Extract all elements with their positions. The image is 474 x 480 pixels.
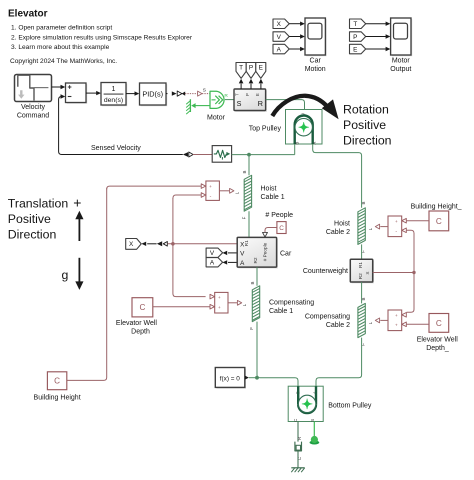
svg-text:Command: Command (17, 112, 49, 119)
svg-text:Top Pulley: Top Pulley (249, 126, 282, 133)
wire hoist cable 1 to Car R1 (248, 211, 250, 237)
wire well depth C to add block (153, 306, 210, 308)
svg-text:Elevator: Elevator (8, 8, 48, 19)
svg-text:Positive: Positive (8, 212, 51, 226)
scope Motor Output (392, 19, 412, 56)
svg-text:Copyright 2024 The MathWorks,: Copyright 2024 The MathWorks, Inc. (10, 58, 117, 65)
svg-text:Cable 1: Cable 1 (261, 194, 285, 201)
from tag E (350, 44, 366, 54)
svg-text:B: B (250, 281, 255, 284)
svg-text:# People: # People (263, 242, 268, 261)
svg-text:Bottom Pulley: Bottom Pulley (328, 403, 372, 410)
wire bottom pulley S to reference dot (313, 422, 315, 439)
svg-text:E: E (255, 93, 260, 96)
compensating cable 2 (358, 303, 365, 337)
wire Elevator Well Depth_ to add right (407, 323, 429, 325)
wire solver to network (249, 377, 257, 379)
wire counterweight X output (373, 272, 414, 274)
svg-text:R: R (297, 437, 302, 440)
svg-text:Output: Output (390, 66, 411, 73)
electrical reference ground at motor (195, 105, 210, 107)
svg-text:X: X (129, 241, 134, 248)
svg-text:Counterweight: Counterweight (303, 268, 348, 275)
wire X junction down to add block right (407, 273, 414, 313)
block PID(s) (141, 84, 168, 106)
wire Velocity Command to Sum (52, 86, 62, 88)
svg-text:Car: Car (310, 58, 322, 65)
svg-text:Rotation: Rotation (343, 103, 389, 117)
wire Sum to Transfer Fcn (86, 92, 97, 94)
svg-text:Translation: Translation (8, 196, 69, 210)
svg-text:R: R (224, 93, 228, 99)
wire subtract to hoist cable 1 L port (219, 190, 229, 192)
svg-text:C: C (54, 377, 60, 386)
wire add block to compensating cable 1 L port (228, 302, 237, 304)
svg-text:Compensating: Compensating (269, 299, 314, 306)
wires X V A to Car Motion scope (289, 23, 301, 25)
svg-text:B: B (295, 142, 300, 145)
svg-text:C: C (139, 303, 145, 312)
wire # People C to car (265, 228, 277, 233)
svg-text:g: g (62, 268, 69, 282)
goto tag X (126, 239, 142, 250)
goto tag A (206, 258, 223, 267)
hoist cable 2 (358, 208, 365, 245)
solver port arrow (245, 376, 249, 380)
wire PID to Simulink-PS converter (166, 93, 168, 95)
wire junction to hoist cable 1 (248, 155, 250, 176)
constant block C Elevator Well Depth_ (429, 314, 449, 333)
solver block f(x)=0 (217, 369, 247, 389)
svg-text:Sensed Velocity: Sensed Velocity (91, 145, 141, 152)
svg-text:+: + (209, 184, 212, 189)
wire X junction down to add block (173, 244, 206, 297)
svg-text:Hoist: Hoist (261, 186, 277, 193)
svg-text:Positive: Positive (343, 118, 386, 132)
constant block C Elevator Well Depth (132, 298, 153, 317)
svg-text:# People: # People (265, 212, 293, 219)
junction node solver (255, 376, 259, 380)
wire hoist cable 2 to counterweight (361, 244, 363, 259)
mechanical ground reference (291, 467, 304, 469)
svg-text:Cable 2: Cable 2 (326, 322, 350, 329)
svg-text:R2: R2 (358, 273, 363, 279)
PS-Simulink converter on sensed velocity (183, 152, 188, 157)
wire top pulley A to hoist cable 2 (313, 144, 362, 208)
svg-text:+: + (73, 195, 81, 211)
junction node X (171, 242, 175, 246)
wire subtract right to hoist cable 2 L port (380, 226, 388, 228)
wire counterweight to compensating cable 2 (361, 282, 363, 303)
svg-text:A: A (277, 46, 282, 53)
svg-text:Elevator Well: Elevator Well (116, 320, 158, 327)
svg-text:+: + (218, 295, 221, 300)
svg-text:B: B (361, 297, 366, 300)
block Top Pulley (286, 110, 323, 145)
svg-text:R1: R1 (244, 240, 249, 246)
wires T P E to Motor Output scope (366, 23, 387, 25)
sensor block S R (torque/power/energy sensor) (235, 90, 267, 112)
svg-text:Building Height: Building Height (34, 394, 81, 401)
svg-text:Motion: Motion (305, 66, 326, 73)
compensating cable 1 (252, 286, 259, 322)
svg-text:A: A (210, 260, 215, 267)
wire X junction up to subtract block right (407, 230, 414, 272)
wire Car R2 to compensating cable 1 (256, 267, 258, 286)
up arrow annotation (78, 218, 80, 242)
goto tag T (236, 63, 246, 79)
svg-text:S: S (203, 87, 206, 93)
PS subtract block for hoist cable 1 length (206, 181, 220, 200)
wire add right to compensating cable 2 L port (380, 319, 388, 321)
svg-text:den(s): den(s) (104, 97, 123, 104)
translational damper to ground (295, 442, 302, 451)
svg-text:E: E (353, 46, 357, 53)
svg-text:Motor: Motor (207, 115, 226, 122)
wire bottom pulley C to damper (297, 422, 299, 442)
svg-text:B: B (242, 170, 247, 173)
block Velocity Command (Signal Editor) (15, 75, 52, 102)
svg-text:Depth_: Depth_ (426, 345, 449, 352)
svg-text:+: + (395, 219, 398, 224)
svg-text:S: S (237, 99, 242, 108)
svg-text:S: S (310, 419, 315, 422)
wire Transfer Fcn to PID (126, 93, 135, 95)
svg-text:Depth: Depth (131, 329, 150, 336)
motor block (Motor & Drive) (210, 91, 224, 108)
block Counterweight (352, 261, 374, 284)
PS subtract block for hoist cable 2 length (388, 216, 402, 237)
svg-text:+: + (218, 305, 221, 310)
svg-text:P: P (249, 64, 253, 71)
svg-text:Direction: Direction (343, 134, 392, 148)
wire damper sensor to top pulley junction (232, 154, 295, 156)
green reference dot (310, 441, 320, 445)
from tag P (350, 32, 366, 42)
svg-text:+: + (395, 323, 398, 328)
svg-text:P: P (245, 93, 250, 96)
svg-text:T: T (353, 21, 357, 28)
PS add block for compensating cable 2 length (388, 310, 402, 331)
svg-text:V: V (210, 250, 215, 257)
svg-text:R: R (258, 99, 263, 108)
Simulink-PS converter (tiny) (177, 91, 182, 96)
svg-text:1: 1 (112, 86, 116, 93)
svg-text:E: E (259, 64, 263, 71)
car input port triangle (263, 232, 268, 237)
block Transfer Fcn 1/den(s) (102, 84, 127, 107)
PS wire X from car (168, 243, 238, 245)
svg-text:Hoist: Hoist (334, 220, 350, 227)
from tag X (273, 19, 289, 29)
wire compensating cable 2 to bottom pulley A (316, 338, 362, 387)
wires sensor to T P E goto tags (240, 84, 242, 89)
svg-text:C: C (293, 419, 298, 422)
svg-text:F: F (360, 250, 365, 253)
hoist cable 1 (244, 175, 251, 211)
junction node counterweight X (412, 271, 415, 274)
svg-text:+: + (395, 313, 398, 318)
wire Building Height up to subtract block (67, 188, 107, 380)
wire damper to ground (297, 451, 299, 468)
svg-text:f(x) = 0: f(x) = 0 (220, 375, 241, 382)
junction node hoist cable 1 (247, 153, 251, 157)
svg-text:R2: R2 (253, 257, 258, 263)
svg-text:Motor: Motor (392, 58, 411, 65)
svg-text:F: F (241, 216, 246, 219)
svg-text:Compensating: Compensating (305, 314, 350, 321)
PS wire converter to Motor S (185, 93, 197, 95)
from tag T (350, 19, 366, 29)
svg-text:PID(s): PID(s) (142, 89, 163, 98)
rotation direction arrow (annotation) (272, 96, 327, 116)
svg-text:T: T (239, 64, 243, 71)
rotational damper/sensor block with zigzag (212, 146, 231, 163)
wire sensed velocity feedback (59, 97, 183, 155)
PS add block for compensating cable 1 length (215, 292, 228, 313)
svg-text:X: X (277, 21, 282, 28)
goto tag E (256, 63, 266, 79)
svg-text:V: V (277, 34, 282, 41)
constant block C # People (277, 222, 286, 234)
wire sensor R to top pulley W (266, 100, 305, 110)
from tag V (273, 32, 289, 42)
gravity down arrow (78, 258, 80, 283)
svg-text:Cable 2: Cable 2 (326, 229, 350, 236)
wire Building Height_ to subtract right (407, 220, 429, 222)
svg-text:T: T (235, 93, 240, 96)
svg-text:3. Learn more about this examp: 3. Learn more about this example (11, 44, 110, 51)
block Bottom Pulley (288, 386, 323, 421)
svg-text:Building Height_: Building Height_ (411, 203, 462, 210)
goto tag P (246, 63, 256, 79)
svg-text:1. Open parameter definition s: 1. Open parameter definition script (11, 25, 112, 32)
svg-text:Car: Car (280, 250, 292, 257)
svg-text:Elevator Well: Elevator Well (417, 337, 459, 344)
PS wire to damper sensor block (193, 154, 212, 156)
constant block C Building Height (47, 372, 66, 390)
wire compensating cable 1 down to bottom pulley (257, 322, 298, 387)
svg-text:C: C (436, 217, 442, 226)
wire top pulley B leg down (294, 144, 296, 155)
svg-text:2. Explore simulation results: 2. Explore simulation results using Sims… (11, 34, 193, 41)
sum block (67, 84, 88, 104)
svg-text:-: - (395, 229, 397, 235)
wire Motor R to sensor S (225, 99, 234, 101)
wire Building Height to subtract + input (107, 186, 201, 189)
wire X branch to subtract - input (173, 195, 201, 198)
constant block C Building Height_ (429, 211, 449, 231)
goto tag V (206, 248, 223, 257)
svg-text:B: B (361, 201, 366, 204)
svg-text:Velocity: Velocity (21, 104, 46, 111)
svg-text:P: P (353, 34, 357, 41)
svg-text:R1: R1 (358, 262, 363, 268)
scope Car Motion (306, 19, 326, 56)
wire converter to X tag (147, 243, 156, 245)
PS-Simulink converter on X (157, 241, 162, 246)
svg-text:Direction: Direction (8, 227, 57, 241)
svg-text:F: F (249, 327, 254, 330)
svg-text:C: C (436, 319, 442, 328)
svg-text:-: - (210, 194, 212, 200)
svg-text:F: F (360, 343, 365, 346)
block Car (239, 239, 278, 269)
svg-text:Cable 1: Cable 1 (269, 308, 293, 315)
svg-text:C: C (279, 225, 284, 232)
wire X junction up to subtract (172, 198, 174, 244)
from tag A (273, 44, 289, 54)
